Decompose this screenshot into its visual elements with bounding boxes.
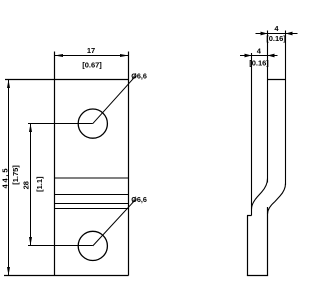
dim 17 left arrow [55, 54, 64, 57]
bottom hole center extension line [28, 245, 93, 247]
bend line 1 [55, 177, 129, 179]
svg-text:[0.67]: [0.67] [82, 60, 102, 69]
svg-text:4: 4 [257, 46, 262, 55]
top hole center extension line [28, 123, 93, 125]
dim 4 lower line [240, 55, 278, 57]
dim 28 bottom arrow [29, 237, 32, 246]
front view right edge with extension up to 17 dim [128, 52, 130, 276]
dim 44,5 line [8, 80, 10, 276]
dim 17 right arrow [120, 54, 129, 57]
leader line top hole [93, 76, 136, 124]
side view bottom edge [247, 275, 268, 277]
front view left edge with extension up to 17 dim [54, 52, 56, 276]
svg-text:44,5: 44,5 [1, 167, 10, 189]
dim 4 lower left outside arrow [245, 54, 252, 58]
dim 44,5 top arrow [7, 80, 10, 89]
side view step edge [247, 215, 252, 217]
svg-text:[0.16]: [0.16] [249, 59, 269, 68]
svg-text:4: 4 [274, 24, 279, 33]
svg-text:Ø6,6: Ø6,6 [131, 71, 147, 80]
front view top edge with extension to 44,5 dim [5, 79, 129, 81]
dim 4 top line [256, 33, 298, 35]
side view upper-left / lower-right shared edge with extension [267, 31, 269, 183]
dim 4 top right outside arrow [286, 32, 293, 36]
svg-text:17: 17 [87, 46, 95, 55]
dim 28 line [30, 124, 32, 246]
front view bottom edge with extension to 44,5 dim [4, 275, 129, 277]
side view lower left edge [247, 216, 249, 276]
svg-text:[1.1]: [1.1] [35, 176, 44, 192]
svg-text:28: 28 [22, 181, 31, 189]
dim 17 line [55, 55, 129, 57]
svg-text:[1.75]: [1.75] [11, 165, 20, 185]
dim 4 lower right outside arrow [268, 54, 275, 58]
dim 28 top arrow [29, 124, 32, 133]
svg-text:Ø6,6: Ø6,6 [131, 195, 147, 204]
side view bend diagonal left [252, 179, 268, 210]
bend line 4 [55, 208, 129, 210]
leader line bottom hole [93, 200, 136, 246]
side view lower right edge [267, 207, 269, 276]
side view upper-right edge with extension [285, 31, 287, 186]
dim 44,5 bottom arrow [7, 267, 10, 276]
side view bend diagonal right [268, 184, 286, 215]
top hole circle [78, 109, 107, 138]
svg-text:[0.16]: [0.16] [266, 34, 286, 43]
bend line 3 [55, 203, 129, 205]
side view left lower edge extension line [251, 53, 253, 216]
bend line 2 [55, 194, 129, 196]
side view top edge [267, 79, 286, 81]
dim 4 top left outside arrow [261, 32, 268, 36]
bottom hole circle [78, 231, 107, 260]
